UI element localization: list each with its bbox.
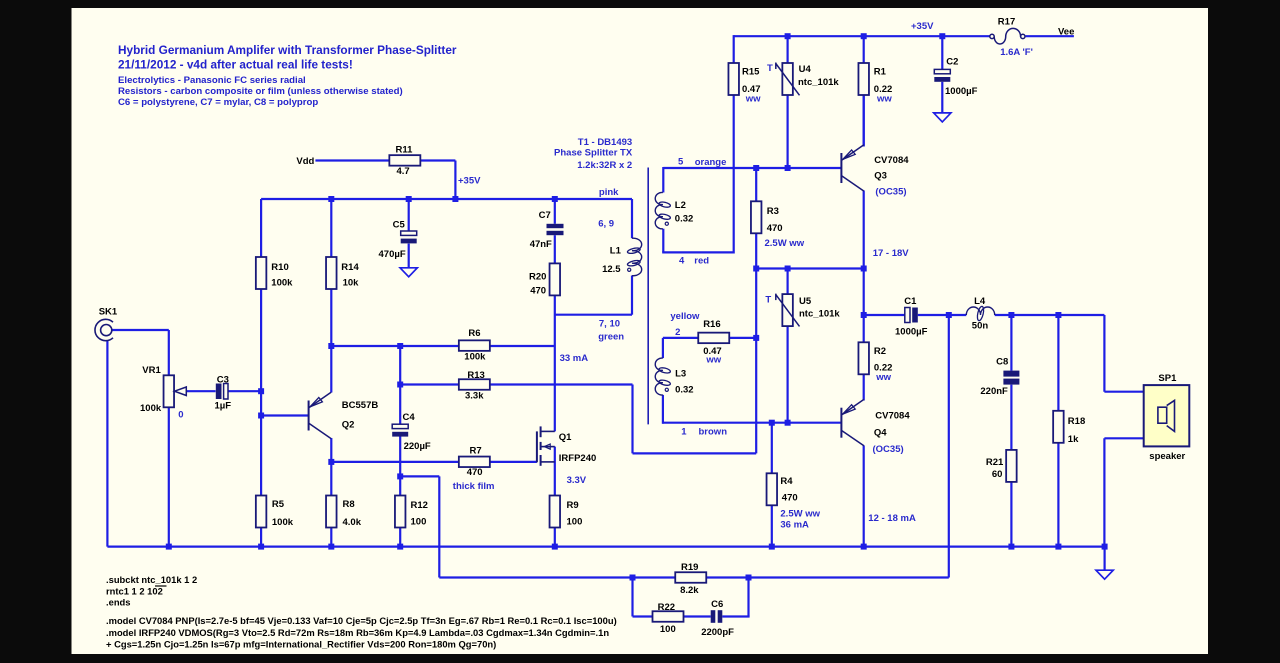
svg-text:R8: R8 <box>343 499 355 510</box>
svg-text:R10: R10 <box>271 262 288 273</box>
svg-text:4.7: 4.7 <box>397 166 410 177</box>
svg-text:8.2k: 8.2k <box>680 585 699 596</box>
svg-text:220nF: 220nF <box>980 386 1008 397</box>
svg-text:470: 470 <box>530 285 546 296</box>
svg-text:R17: R17 <box>998 17 1015 28</box>
svg-text:Hybrid Germanium Amplifer with: Hybrid Germanium Amplifer with Transform… <box>118 43 457 57</box>
svg-text:L4: L4 <box>974 296 986 307</box>
svg-text:ntc_101k: ntc_101k <box>798 77 839 88</box>
svg-text:100: 100 <box>567 517 583 528</box>
svg-text:12.5: 12.5 <box>602 264 621 275</box>
svg-text:VR1: VR1 <box>142 365 161 376</box>
svg-text:47nF: 47nF <box>530 239 552 250</box>
svg-text:C1: C1 <box>904 296 917 307</box>
svg-text:L2: L2 <box>675 200 686 211</box>
svg-text:C8: C8 <box>996 357 1008 368</box>
svg-text:C6: C6 <box>711 599 723 610</box>
svg-text:CV7084: CV7084 <box>874 155 909 166</box>
svg-text:R14: R14 <box>341 262 359 273</box>
svg-text:.model IRFP240 VDMOS(Rg=3 Vto=: .model IRFP240 VDMOS(Rg=3 Vto=2.5 Rd=72m… <box>106 627 609 638</box>
svg-text:C6 = polystyrene, C7 = mylar,: C6 = polystyrene, C7 = mylar, C8 = polyp… <box>118 97 318 108</box>
svg-text:T1 - DB1493: T1 - DB1493 <box>578 137 632 148</box>
svg-text:36 mA: 36 mA <box>780 519 809 530</box>
svg-text:T: T <box>767 63 773 74</box>
svg-text:1µF: 1µF <box>215 401 232 412</box>
svg-text:L3: L3 <box>675 368 686 379</box>
svg-text:12 - 18 mA: 12 - 18 mA <box>868 513 916 524</box>
svg-text:4: 4 <box>679 256 685 267</box>
svg-text:R18: R18 <box>1068 416 1085 427</box>
svg-text:ww: ww <box>875 372 891 383</box>
svg-text:100k: 100k <box>464 352 486 363</box>
svg-text:C2: C2 <box>946 57 958 68</box>
svg-text:100: 100 <box>660 624 676 635</box>
svg-text:thick film: thick film <box>453 481 495 492</box>
svg-text:R9: R9 <box>567 500 579 511</box>
svg-text:C4: C4 <box>403 412 416 423</box>
svg-text:R22: R22 <box>658 602 675 613</box>
svg-text:pink: pink <box>599 187 619 198</box>
svg-text:1k: 1k <box>1068 434 1079 445</box>
svg-text:IRFP240: IRFP240 <box>559 453 597 464</box>
svg-text:2: 2 <box>675 327 680 338</box>
svg-text:0.32: 0.32 <box>675 385 694 396</box>
svg-text:.model CV7084 PNP(Is=2.7e-5 bf: .model CV7084 PNP(Is=2.7e-5 bf=45 Vje=0.… <box>106 615 617 626</box>
svg-text:orange: orange <box>695 157 727 168</box>
svg-text:Vdd: Vdd <box>296 156 314 167</box>
svg-text:.ends: .ends <box>106 596 131 607</box>
svg-text:4.0k: 4.0k <box>343 517 362 528</box>
svg-text:BC557B: BC557B <box>342 400 379 411</box>
svg-text:red: red <box>694 256 709 267</box>
svg-text:0.32: 0.32 <box>675 214 694 225</box>
svg-text:ntc_101k: ntc_101k <box>799 308 840 319</box>
svg-text:2.5W ww: 2.5W ww <box>765 238 805 249</box>
svg-text:Resistors - carbon composite o: Resistors - carbon composite or film (un… <box>118 86 403 97</box>
svg-text:SK1: SK1 <box>99 307 118 318</box>
svg-text:+35V: +35V <box>911 21 934 32</box>
svg-text:R3: R3 <box>767 206 779 217</box>
svg-text:R5: R5 <box>272 499 285 510</box>
svg-text:R19: R19 <box>681 562 698 573</box>
svg-text:U5: U5 <box>799 296 812 307</box>
svg-text:R12: R12 <box>411 500 428 511</box>
svg-text:green: green <box>598 331 624 342</box>
svg-text:470: 470 <box>782 492 798 503</box>
svg-text:6, 9: 6, 9 <box>598 218 614 229</box>
svg-text:5: 5 <box>678 156 684 167</box>
svg-text:R20: R20 <box>529 271 546 282</box>
svg-text:R13: R13 <box>467 370 484 381</box>
svg-text:ww: ww <box>745 93 761 104</box>
svg-text:ww: ww <box>705 354 721 365</box>
svg-text:1000µF: 1000µF <box>945 86 978 97</box>
svg-text:R11: R11 <box>396 145 414 156</box>
svg-text:R6: R6 <box>468 328 480 339</box>
svg-text:C7: C7 <box>539 210 551 221</box>
svg-text:10k: 10k <box>343 277 360 288</box>
svg-text:Vee: Vee <box>1058 26 1074 37</box>
svg-text:Q2: Q2 <box>342 419 355 430</box>
svg-text:1.2k:32R x 2: 1.2k:32R x 2 <box>577 160 632 171</box>
svg-text:Electrolytics - Panasonic FC s: Electrolytics - Panasonic FC series radi… <box>118 75 306 86</box>
svg-text:R15: R15 <box>742 67 760 78</box>
svg-text:2200pF: 2200pF <box>701 627 734 638</box>
svg-text:L1: L1 <box>610 246 622 257</box>
svg-text:R4: R4 <box>780 476 793 487</box>
svg-text:100k: 100k <box>271 277 293 288</box>
svg-text:470: 470 <box>467 467 483 478</box>
svg-text:+35V: +35V <box>458 176 481 187</box>
svg-text:470µF: 470µF <box>379 249 406 260</box>
svg-text:100: 100 <box>411 517 427 528</box>
svg-text:(OC35): (OC35) <box>873 444 904 455</box>
svg-text:Q1: Q1 <box>559 432 572 443</box>
svg-text:+ Cgs=1.25n Cjo=1.25n Is=67p m: + Cgs=1.25n Cjo=1.25n Is=67p mfg=Interna… <box>106 638 496 649</box>
svg-text:0: 0 <box>178 410 183 421</box>
svg-text:3.3V: 3.3V <box>567 475 587 486</box>
svg-text:Q3: Q3 <box>874 171 887 182</box>
svg-text:17 - 18V: 17 - 18V <box>873 248 910 259</box>
svg-text:speaker: speaker <box>1149 451 1185 462</box>
svg-text:Q4: Q4 <box>874 428 887 439</box>
svg-text:CV7084: CV7084 <box>875 410 910 421</box>
svg-text:R7: R7 <box>470 446 482 457</box>
svg-text:3.3k: 3.3k <box>465 391 484 402</box>
svg-text:SP1: SP1 <box>1158 373 1177 384</box>
svg-text:33 mA: 33 mA <box>560 353 589 364</box>
svg-text:1000µF: 1000µF <box>895 327 928 338</box>
svg-text:100k: 100k <box>140 403 162 414</box>
svg-text:U4: U4 <box>799 64 812 75</box>
svg-text:1.6A 'F': 1.6A 'F' <box>1000 47 1033 58</box>
svg-text:21/11/2012 - v4d after actual: 21/11/2012 - v4d after actual real life … <box>118 58 353 72</box>
svg-text:ww: ww <box>876 93 892 104</box>
svg-text:R16: R16 <box>703 319 720 330</box>
svg-text:R1: R1 <box>874 67 887 78</box>
svg-text:T: T <box>765 294 771 305</box>
svg-text:100k: 100k <box>272 517 294 528</box>
svg-text:Phase Splitter TX: Phase Splitter TX <box>554 148 633 159</box>
svg-text:220µF: 220µF <box>404 441 431 452</box>
svg-text:.subckt ntc_101k 1 2: .subckt ntc_101k 1 2 <box>106 574 197 585</box>
svg-text:yellow: yellow <box>670 311 700 322</box>
svg-text:brown: brown <box>699 427 728 438</box>
svg-text:2.5W ww: 2.5W ww <box>780 509 820 520</box>
svg-text:50n: 50n <box>972 320 989 331</box>
svg-text:470: 470 <box>767 223 783 234</box>
svg-text:7, 10: 7, 10 <box>599 319 620 330</box>
svg-text:R2: R2 <box>874 346 886 357</box>
svg-text:(OC35): (OC35) <box>875 187 906 198</box>
svg-text:R21: R21 <box>986 457 1004 468</box>
svg-text:1: 1 <box>681 427 687 438</box>
svg-text:C5: C5 <box>393 220 406 231</box>
svg-text:rntc1 1 2 102: rntc1 1 2 102 <box>106 586 163 597</box>
svg-text:60: 60 <box>992 469 1003 480</box>
svg-text:C3: C3 <box>217 374 229 385</box>
